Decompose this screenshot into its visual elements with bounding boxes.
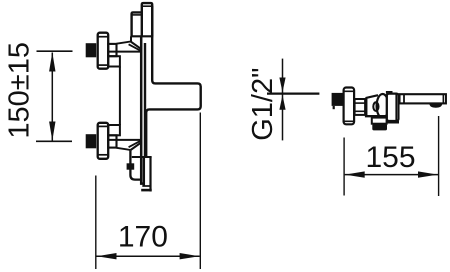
dim 150 top tick [37,50,73,52]
dim 155 right extension line [438,116,440,196]
top tube right (shower outlet pipe) [142,3,152,36]
arm tip inner line [442,94,444,103]
knob flange [344,88,355,125]
bottom knob flange [98,123,109,159]
housing bottom lip [387,121,398,123]
bottom pipe black nub [127,163,135,169]
foot inner cap [142,185,150,187]
housing top step [387,92,392,94]
dome ellipse [377,94,389,118]
joint line under tubes [131,35,154,37]
foot bottom cap [141,189,152,192]
column left wall [141,36,144,184]
dim 150 arrow line [51,53,53,141]
front line between knobs [119,67,121,126]
dim 170 left extension line [95,176,97,270]
wall union black box [372,124,387,131]
dim 170 right extension line [199,113,201,270]
dim 170 line [96,255,199,257]
short vertical from joint [130,36,132,42]
dim 155 line [345,174,439,176]
foot middle vertical [143,157,145,187]
housing block [387,94,399,121]
svg-text:150±15: 150±15 [4,42,36,139]
column right edge into spout [146,6,201,157]
joint line above foot [132,156,152,158]
arm inner joint line [403,94,405,103]
bottom knob step box [108,125,120,135]
svg-text:155: 155 [365,141,415,174]
top knob wedge diagonals [131,42,142,50]
body left section [366,95,378,116]
top knob black cap [86,43,97,57]
nut [355,99,366,115]
column inner wall segment [144,43,146,157]
foot right edge [149,157,151,192]
top knob flange [98,33,109,69]
pipe axis line [267,92,319,94]
small ellipse [373,102,378,111]
arm (spout bar) [400,94,446,103]
top knob connector [108,44,116,56]
dim 150 bottom tick [36,140,72,142]
top knob bracket rising line [117,42,131,44]
bottom pipe below bottom knob [130,150,141,179]
housing inner line [395,94,397,121]
bottom knob bracket falling line [117,148,131,150]
outlet nub under arm [429,104,442,108]
top knob step box [108,56,120,66]
bottom knob connector [108,135,116,147]
bottom knob black cap [86,134,97,148]
top tube left [132,12,142,36]
wall union white box [372,118,387,124]
bottom knob wedge diagonals [131,142,142,150]
cap nub [333,106,335,109]
svg-text:G1/2": G1/2" [247,68,279,141]
callout arrow line [282,59,284,141]
dim 155 left extension line [343,138,345,196]
svg-text:170: 170 [118,221,168,254]
knob black cap [332,93,344,106]
